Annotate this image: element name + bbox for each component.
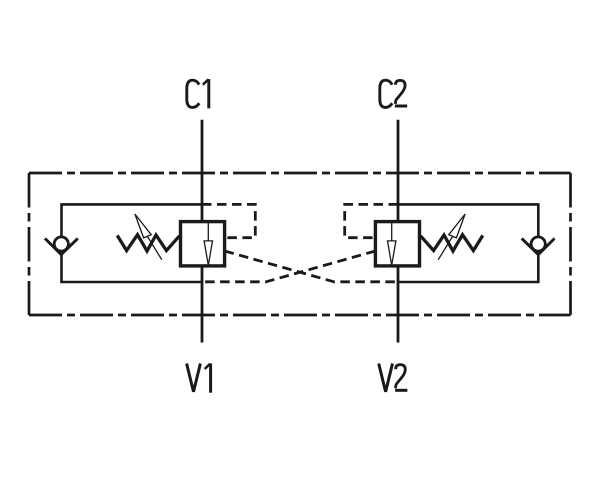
wire C2 line (port C2 to valve) — [397, 120, 400, 222]
adjustment arrow right head — [449, 214, 465, 238]
valve body right internal flow line — [391, 222, 393, 241]
port label C1 — [187, 79, 209, 108]
check valve CV2 seat — [522, 238, 555, 254]
wire C1 line (port C1 to valve) — [201, 120, 204, 222]
check valve CV1 seat — [45, 238, 78, 254]
port label C2 glyph C — [380, 80, 392, 107]
boundary dash-dot border right — [569, 173, 572, 315]
adjustment arrow left — [135, 214, 162, 260]
adjustment arrow left head — [135, 214, 151, 238]
valve body left internal flow line — [207, 222, 209, 241]
spring right — [421, 235, 483, 251]
port label V1 glyph 1 stem — [209, 363, 212, 392]
check valve CV1 ball — [54, 237, 68, 251]
check valve CV2 — [522, 237, 555, 255]
port label V2 — [379, 364, 408, 392]
port label V1 glyph 1 flag — [205, 364, 210, 369]
port label C1 glyph 1 stem — [207, 79, 210, 108]
adjustment arrow right shaft — [438, 236, 452, 259]
port label V1 glyph V — [187, 364, 201, 392]
port label C2 glyph 2 base — [395, 105, 407, 108]
boundary dash-dot border left — [28, 173, 31, 315]
valve body right (overcenter cartridge) — [375, 222, 419, 266]
valve body left poppet arrow — [204, 241, 212, 265]
port label V1 — [187, 363, 211, 392]
wire right check-valve bypass loop — [398, 204, 538, 282]
check valve CV2 ball — [531, 237, 545, 251]
wire left check-valve bypass loop — [62, 204, 203, 282]
port label V2 glyph V — [379, 364, 393, 392]
valve body right poppet arrow — [388, 241, 396, 265]
port label C2 glyph 2 curve — [395, 80, 405, 104]
wire V2 line (valve to port V2) — [397, 266, 400, 343]
spring left — [117, 235, 179, 251]
valve body left (overcenter cartridge) — [181, 222, 225, 266]
boundary dash-dot border bottom — [29, 314, 571, 317]
valve body left square — [181, 222, 225, 266]
port label C1 glyph C — [187, 80, 199, 107]
check valve CV1 — [45, 237, 78, 255]
valve body right square — [375, 222, 419, 266]
boundary dash-dot border top — [29, 172, 571, 175]
port label V2 glyph 2 curve — [396, 365, 406, 389]
pilot line right valve upper loop (dashed) — [345, 204, 398, 237]
pilot line cross from left valve to V2 (dashed) — [225, 251, 398, 282]
port label C1 glyph 1 flag — [203, 80, 208, 85]
port label C2 — [380, 80, 407, 107]
wire V1 line (valve to port V1) — [201, 266, 204, 343]
port label V2 glyph 2 base — [395, 389, 407, 392]
adjustment arrow left shaft — [147, 236, 161, 259]
adjustment arrow right — [438, 214, 465, 260]
pilot line left valve upper loop (dashed) — [202, 204, 255, 237]
pilot line cross from right valve to V1 (dashed) — [202, 251, 375, 282]
